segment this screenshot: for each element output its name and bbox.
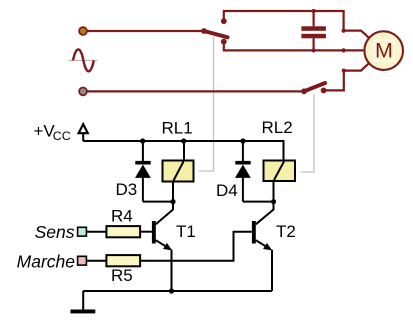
+Vcc stem [82, 133, 84, 141]
motor middle terminal dot [342, 48, 346, 52]
node T2 collector [271, 199, 276, 204]
relay coil RL1 [163, 141, 194, 202]
motor M1 body [364, 31, 403, 70]
switch SW1 blade [204, 31, 228, 37]
junction capacitor top [312, 9, 316, 13]
ground rail [83, 290, 272, 292]
relay actuation link RL2 (gray) [301, 95, 315, 173]
switch SW2 blade [304, 83, 325, 91]
AC source bottom terminal [79, 88, 87, 96]
motor top terminal dot [342, 29, 346, 33]
motor top terminal stub [344, 31, 369, 38]
Sens input terminal [78, 227, 87, 236]
motor bottom terminal dot [342, 69, 346, 73]
svg-text:Sens: Sens [35, 222, 75, 242]
svg-text:R5: R5 [111, 266, 133, 285]
Marche input terminal [78, 256, 87, 265]
relay coil RL2 [264, 161, 296, 202]
capacitor bottom lead [313, 38, 315, 50]
svg-text:T1: T1 [176, 222, 196, 241]
switch SW1 lower contact dot [221, 39, 227, 45]
wire Marche to R5 [86, 260, 106, 262]
transistor T2 [252, 202, 274, 291]
wire R5 to T2 base [140, 232, 252, 261]
svg-text:R4: R4 [111, 207, 133, 226]
wire AC top terminal to SW1 pivot [83, 30, 204, 32]
junction capacitor bottom [312, 48, 316, 52]
AC source top terminal [79, 27, 87, 35]
node D3 tap [140, 138, 145, 143]
wire +Vcc rail [83, 141, 283, 161]
wire SW2 contact to motor bottom terminal [324, 71, 344, 91]
node RL1 tap [181, 138, 186, 143]
node T1 collector [170, 199, 175, 204]
svg-text:RL2: RL2 [262, 118, 293, 137]
transistor T1 [152, 202, 173, 291]
capacitor top lead [313, 11, 315, 26]
svg-text:T2: T2 [276, 222, 296, 241]
wire SW1 upper contact to motor top terminal [224, 11, 344, 31]
diode D3 [135, 141, 173, 202]
+Vcc supply arrow [79, 124, 88, 133]
resistor R5 [106, 255, 140, 266]
motor bottom terminal stub [344, 63, 369, 70]
capacitor bottom plate [301, 34, 326, 39]
capacitor top plate [301, 26, 326, 31]
resistor R4 [106, 226, 140, 237]
ground symbol [71, 291, 96, 313]
wire AC bottom terminal to SW2 pivot [83, 90, 304, 92]
node T1 emitter to ground [169, 288, 174, 293]
switch SW1 upper contact dot [221, 18, 227, 24]
wire R4 to T1 base [140, 231, 152, 233]
switch SW1 pivot dot [201, 28, 207, 34]
svg-text:M: M [375, 39, 393, 63]
svg-text:Marche: Marche [17, 252, 76, 272]
wire SW1 lower contact to motor middle terminal [224, 42, 363, 51]
svg-text:RL1: RL1 [162, 118, 193, 137]
switch SW2 pivot dot [301, 88, 307, 94]
AC source sine [73, 49, 94, 71]
motor inner square [374, 40, 394, 61]
AC source axis line [69, 59, 98, 61]
node D4 tap [240, 138, 245, 143]
svg-text:D3: D3 [116, 180, 138, 199]
svg-text:D4: D4 [216, 181, 238, 200]
relay actuation link RL1 (gray) [199, 37, 214, 172]
wire Sens to R4 [86, 231, 106, 233]
switch SW2 contact dot [321, 88, 327, 94]
diode D4 [235, 141, 274, 202]
svg-text:CC: CC [53, 129, 71, 143]
